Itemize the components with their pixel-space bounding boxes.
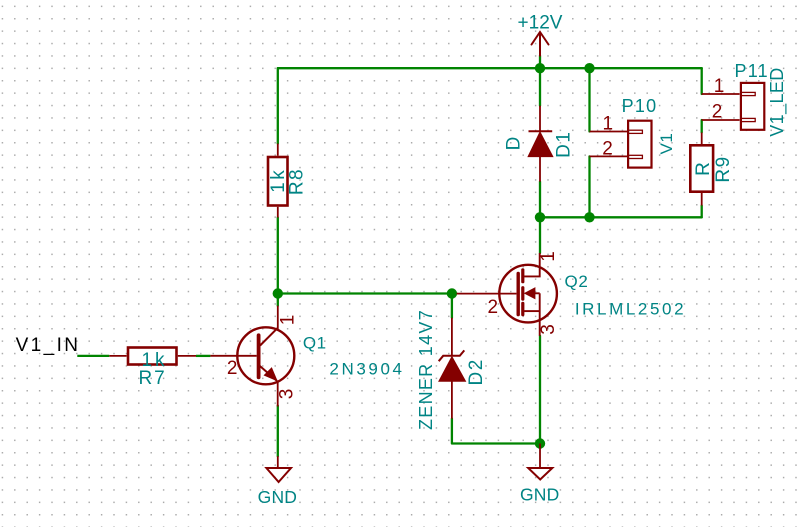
junction top rail / P10 [584,63,594,73]
svg-text:1: 1 [278,315,299,326]
svg-text:3: 3 [538,324,559,335]
wire top rail [278,67,702,69]
svg-text:1: 1 [603,113,614,134]
svg-text:ZENER 14V7: ZENER 14V7 [416,309,436,430]
svg-text:R: R [693,161,714,176]
junction top rail / D1 [535,63,545,73]
wire R9 bottom stub [701,206,703,218]
wire gate net [278,292,457,294]
svg-text:2: 2 [712,102,723,123]
wire zener bottom [452,419,540,444]
connector P10 [590,96,676,168]
svg-text:2: 2 [602,139,613,160]
wire D1 top [539,68,541,106]
ground GND (Q1) [258,456,298,507]
power +12V [532,32,549,56]
wire +12V to rail [539,56,541,69]
svg-text:2: 2 [227,358,238,379]
wire V1_IN to R7 [77,355,109,357]
svg-text:GND: GND [258,487,298,507]
diode D1 [504,106,575,182]
svg-text:3: 3 [277,389,298,400]
svg-text:2: 2 [488,297,499,318]
svg-text:R8: R8 [287,168,308,195]
svg-text:GND: GND [520,484,560,504]
junction bottom rail / D1 [535,212,545,222]
svg-text:P10: P10 [622,96,658,116]
wire P10 pin2 drop [588,156,590,217]
wire R7 to Q1 base [196,355,210,357]
transistor Q2 [457,251,687,336]
resistor R9 [690,133,734,206]
svg-text:Q2: Q2 [565,272,589,291]
svg-text:2N3904: 2N3904 [329,360,404,379]
wire R8 bottom to node A [277,218,279,294]
junction bottom rail / P10 [584,212,594,222]
connector P11 [702,61,788,137]
wire P10 pin1 drop [588,68,590,131]
svg-text:V1: V1 [657,133,676,155]
junction gate / zener [447,288,457,298]
transistor Q1 [210,306,404,407]
resistor R7 [109,348,196,390]
resistor R8 [268,144,308,218]
svg-text:V1_IN: V1_IN [16,335,81,356]
wire P11 pin2 to R9 [701,120,703,133]
svg-text:R9: R9 [713,155,734,182]
svg-text:1: 1 [714,76,725,97]
wire bottom rail [540,216,702,218]
svg-text:IRLML2502: IRLML2502 [575,299,686,318]
svg-text:D: D [504,135,525,150]
svg-text:Q1: Q1 [303,334,327,353]
svg-text:P11: P11 [735,61,769,81]
wire to R8 top [277,68,279,143]
svg-text:D2: D2 [466,358,487,385]
junction R8 / gate / Q1 collector [273,288,283,298]
wire Q2 drain [539,217,541,253]
zener D2 [416,309,487,430]
svg-text:+12V: +12V [518,12,563,33]
svg-text:1: 1 [538,251,559,262]
svg-text:D1: D1 [554,131,575,158]
wire Q1 emitter to GND [277,406,279,457]
wire P11 pin1 drop [701,68,703,94]
wire Q1 collector stub [277,294,279,306]
ground GND (Q2) [520,444,560,505]
svg-text:V1_LED: V1_LED [767,67,788,136]
svg-text:R7: R7 [138,368,166,389]
wire Q2 source to GND node [539,336,541,444]
wire zener top [451,294,453,318]
junction source / zener / GND [535,438,545,448]
wire D1 bottom [539,182,541,218]
